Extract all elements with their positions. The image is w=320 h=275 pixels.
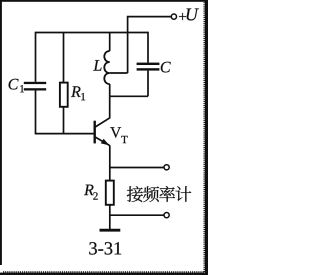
wire inductor tap to +U — [110, 72, 128, 74]
wire C branch top — [147, 32, 149, 63]
wire tank bottom node — [110, 95, 148, 97]
capacitor C1 plates — [24, 82, 46, 91]
terminal output top circle — [164, 165, 169, 170]
wire base node — [35, 133, 94, 135]
wire inductor bottom — [109, 84, 111, 96]
label +U — [179, 13, 186, 20]
label 接频率计 — [127, 186, 143, 202]
label C — [161, 62, 171, 73]
wire collector vertical — [109, 96, 111, 118]
wire node A top-left rail — [36, 32, 149, 34]
page frame (decorative) — [0, 0, 208, 275]
wire +U vertical feed — [127, 16, 129, 73]
wire R2 bottom to ground — [109, 205, 111, 229]
wire inductor top — [109, 33, 111, 52]
wire output top to terminal — [110, 167, 164, 169]
label C1 — [9, 79, 19, 90]
label VT — [110, 127, 121, 137]
label R2 — [84, 185, 94, 195]
wire C1 branch top — [35, 32, 37, 82]
transistor VT emitter arrowhead — [101, 139, 110, 146]
wire +U top rail — [128, 16, 171, 18]
terminal +U circle — [171, 14, 176, 19]
terminal output bottom circle — [164, 213, 169, 218]
label 3-31 — [89, 242, 97, 254]
wire emitter vertical — [109, 146, 111, 181]
wire output bottom to terminal — [110, 214, 164, 216]
transistor VT base bar — [93, 121, 95, 144]
transistor VT emitter lead — [95, 137, 110, 146]
wire R1 branch bottom — [63, 107, 65, 134]
ground — [100, 229, 121, 232]
resistor R2 — [106, 181, 114, 205]
transistor VT collector lead — [95, 118, 110, 127]
capacitor C plates — [137, 63, 160, 71]
resistor R1 — [60, 83, 68, 107]
wire R1 branch top — [63, 33, 65, 83]
inductor L coil — [104, 51, 109, 84]
label L — [93, 60, 101, 70]
label R1 — [71, 86, 81, 96]
wire C1 branch bottom — [35, 90, 37, 133]
wire C branch bottom — [147, 71, 149, 97]
